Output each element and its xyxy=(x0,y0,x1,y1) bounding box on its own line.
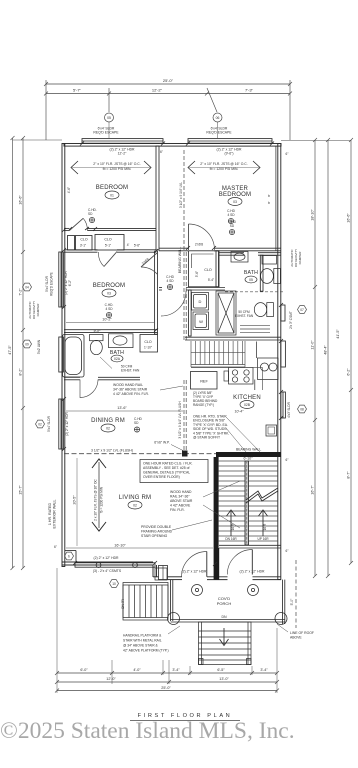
window top-left 6x4 sldr xyxy=(82,139,163,144)
door arc master xyxy=(189,224,215,250)
bottom-left wall notch xyxy=(65,551,76,563)
bearing wall black vertical lower xyxy=(214,548,220,580)
closet2 bifold door xyxy=(104,252,117,267)
dimension line top row2 5'-7" / 12'-2" / 7'-3" xyxy=(44,80,292,140)
refrigerator xyxy=(191,372,218,390)
exterior wall bottom jog xyxy=(153,565,159,577)
bottom extension lines xyxy=(57,568,277,693)
linen closet xyxy=(140,335,158,353)
window right 4x3 sldr xyxy=(281,392,286,418)
window left bath awning xyxy=(59,337,64,372)
door arc stair porch xyxy=(227,550,252,575)
exterior wall top xyxy=(64,144,281,147)
extension line top left xyxy=(13,139,63,141)
exterior wall right inner face xyxy=(275,146,277,251)
bottom dim row3 25'-0" xyxy=(55,689,279,693)
exterior wall bottom left part xyxy=(62,562,153,565)
master bath vanity xyxy=(231,252,277,265)
dining dim 13'-6" xyxy=(66,410,183,412)
dishwasher xyxy=(266,425,277,436)
hall bath toilet xyxy=(254,303,273,317)
porch center stair xyxy=(199,622,252,665)
window top-right 6x4 sldr xyxy=(188,139,272,144)
closet master xyxy=(189,251,220,287)
door arc bath xyxy=(80,380,98,398)
door arc bedroom1 xyxy=(83,218,87,230)
window right small 2x3 csmt xyxy=(281,305,285,321)
window right kitchen xyxy=(281,341,286,367)
hexagon porch left xyxy=(110,580,119,588)
exterior wall bottom right part xyxy=(168,577,282,580)
door arc front entry xyxy=(182,552,207,577)
interior wall master bottom xyxy=(159,248,281,251)
roof dashed line right xyxy=(295,560,297,628)
stair arrows xyxy=(227,510,268,536)
closet walls hall xyxy=(64,235,156,253)
washer dryer xyxy=(192,293,209,330)
platform pilaster at porch left xyxy=(159,566,168,580)
master bath walls xyxy=(219,253,281,292)
one hour rated box xyxy=(140,460,208,483)
left margin hexagon 02 xyxy=(36,420,45,428)
porch outline xyxy=(171,580,285,624)
leader lines stair note xyxy=(226,417,260,452)
window left dining 5x4 sldr xyxy=(59,399,64,449)
flush beam dashed xyxy=(64,453,216,455)
porch left platform xyxy=(155,568,167,580)
wall below hall bath band xyxy=(185,337,281,340)
basement stair treads upper xyxy=(191,341,245,367)
bearing wall black vertical xyxy=(214,457,219,548)
porch side stair left xyxy=(123,583,168,621)
right margin hexagon 08 xyxy=(298,405,307,413)
dimension line top 25'-0" xyxy=(44,82,292,86)
extension below circle 05 xyxy=(108,122,110,138)
stair bottom wall xyxy=(219,545,281,548)
bath left: tub xyxy=(63,335,85,378)
stairwell xyxy=(219,461,278,541)
extension line top right xyxy=(281,140,351,142)
left margin hexagon 09 xyxy=(23,340,32,348)
joist arrow living xyxy=(98,462,100,528)
window bottom living 3 csmts xyxy=(75,563,155,568)
wall junction tick slashes xyxy=(62,142,283,567)
kitchen sink xyxy=(255,342,278,391)
window callout circle 05 xyxy=(105,113,114,122)
bearing wall dashed line hall xyxy=(184,150,186,340)
bath left: vanity xyxy=(109,334,134,348)
toilet room counter lines xyxy=(240,325,270,332)
bottom dim row2 xyxy=(55,680,279,684)
porch columns mid xyxy=(192,585,259,596)
dim 20'-5" living vertical xyxy=(76,458,78,546)
bottom dim row1 xyxy=(55,671,279,675)
interior wall bedroom divider xyxy=(156,146,159,250)
stove knob panel xyxy=(224,371,229,381)
bath bottom wall xyxy=(64,377,140,380)
watermark xyxy=(0,718,358,745)
bath left: toilet xyxy=(90,335,104,355)
interior wall bedroom2 bottom xyxy=(64,330,158,333)
door arc hall to laundry xyxy=(161,291,186,316)
right dim line 1 xyxy=(313,138,317,578)
right dim line 2 xyxy=(326,138,330,578)
kitchen counter edge xyxy=(191,368,263,391)
stair break line xyxy=(246,488,278,500)
window left bedroom2 5x4 sldr xyxy=(59,252,64,307)
dim 10'-2" bedroom2 xyxy=(66,322,154,324)
door arc bedroom2 xyxy=(141,267,158,275)
stair center divider xyxy=(245,461,249,545)
window callout circle 06 xyxy=(213,113,222,122)
chase box with X xyxy=(216,291,236,335)
stove xyxy=(229,368,254,385)
right dim line 3 xyxy=(349,138,353,565)
porch corner columns xyxy=(168,613,180,625)
dim 16'-10" living xyxy=(66,547,213,549)
master bath toilet xyxy=(261,269,281,284)
exterior wall right xyxy=(278,144,281,580)
left margin hexagon 04 xyxy=(23,283,32,291)
interior wall bedroom2 right / hall left xyxy=(155,251,158,334)
left dim line segments xyxy=(21,136,25,570)
left dim line 47'-5" xyxy=(11,136,15,570)
dashed ceiling line master bath xyxy=(225,291,284,293)
interior wall bedroom1 bottom xyxy=(64,228,156,230)
exterior wall left xyxy=(62,144,65,567)
post 6x6 xyxy=(182,451,188,457)
right margin hexagon 07 xyxy=(298,306,307,314)
bearing wall black horizontal xyxy=(216,452,281,457)
kitchen dining divider dashed xyxy=(184,380,186,453)
hexagon bottom left corner xyxy=(65,552,74,560)
laundry walls xyxy=(159,288,225,337)
